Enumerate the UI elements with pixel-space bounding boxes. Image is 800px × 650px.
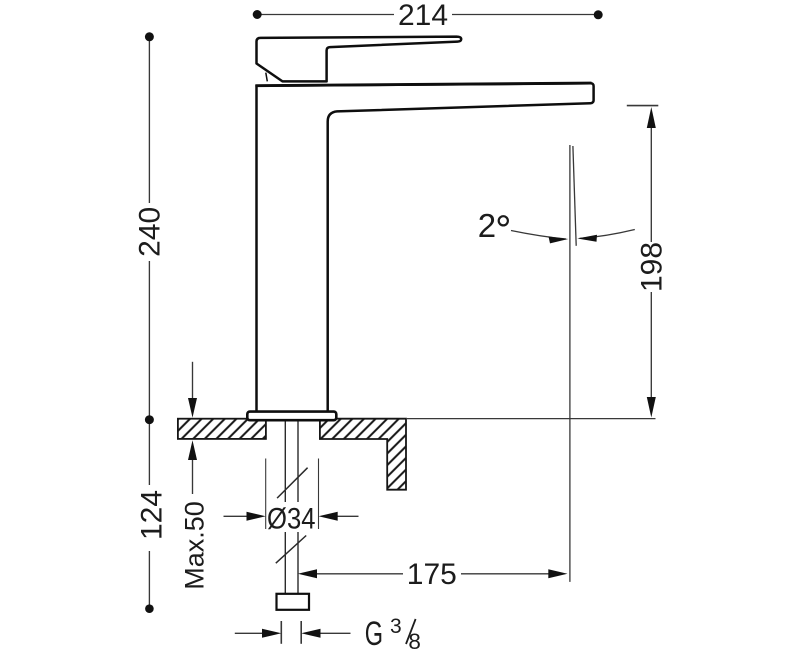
svg-text:8: 8 bbox=[408, 629, 421, 650]
dim 124 line bbox=[148, 424, 150, 605]
countertop left hatched section bbox=[178, 419, 266, 439]
svg-text:198: 198 bbox=[636, 242, 669, 292]
dim 124 end dot bbox=[145, 604, 154, 613]
dim 214 end dots bbox=[253, 10, 262, 19]
dim 198 line bbox=[650, 126, 652, 400]
angle 2deg left leader arc bbox=[511, 231, 566, 240]
countertop surface reference line to right bbox=[406, 418, 656, 420]
dim 198 up arrow bbox=[647, 107, 656, 128]
svg-text:2: 2 bbox=[478, 207, 496, 244]
stream vertical reference line bbox=[569, 145, 571, 582]
dim Max.50 lower arrow bbox=[192, 459, 194, 494]
angle 2deg right leader arc bbox=[580, 230, 635, 239]
svg-text:G: G bbox=[365, 615, 383, 650]
dim 198 top tick bbox=[627, 105, 659, 107]
svg-text:214: 214 bbox=[398, 0, 448, 32]
dim O34 left arrow bbox=[224, 515, 249, 517]
handle lever bbox=[257, 37, 462, 82]
handle pivot detail line bbox=[266, 73, 268, 82]
dim Max.50 upper arrow bbox=[192, 362, 194, 400]
dim 198 down arrow bbox=[647, 397, 656, 418]
dim O34 extension line left bbox=[265, 459, 267, 530]
dim 240 end dots bbox=[145, 32, 154, 41]
G3/8 connector nipple bbox=[277, 594, 310, 610]
dim G3/8 right tick bbox=[300, 621, 302, 644]
hose break slash lower bbox=[276, 536, 306, 564]
dim 175 line bbox=[316, 573, 549, 575]
faucet body and spout outline bbox=[255, 83, 593, 411]
dim O34 extension line right bbox=[318, 459, 320, 530]
body top edge (thicker) bbox=[256, 83, 592, 86]
svg-text:Ø34: Ø34 bbox=[267, 503, 316, 536]
dim G3/8 right arrow bbox=[319, 632, 351, 634]
dim 240 line bbox=[148, 37, 150, 419]
base plate bbox=[247, 412, 336, 421]
countertop right hatched L-section bbox=[320, 419, 406, 490]
stream tilted 2deg line bbox=[573, 146, 576, 246]
svg-text:175: 175 bbox=[407, 558, 457, 591]
dim 175 left arrow bbox=[298, 569, 317, 578]
svg-text:Max.50: Max.50 bbox=[180, 501, 210, 590]
supply pipe right line bbox=[297, 421, 299, 503]
dim 214 line bbox=[257, 14, 598, 16]
svg-text:240: 240 bbox=[134, 207, 167, 257]
dim O34 right arrow bbox=[336, 515, 359, 517]
hose break slash upper bbox=[277, 468, 308, 498]
svg-text:3: 3 bbox=[390, 615, 402, 638]
supply pipe left line bbox=[284, 421, 286, 503]
dim G3/8 left arrow bbox=[235, 632, 264, 634]
dim 175 right arrow bbox=[548, 569, 567, 578]
dim G3/8 left tick bbox=[280, 621, 282, 644]
svg-text:124: 124 bbox=[136, 490, 169, 540]
